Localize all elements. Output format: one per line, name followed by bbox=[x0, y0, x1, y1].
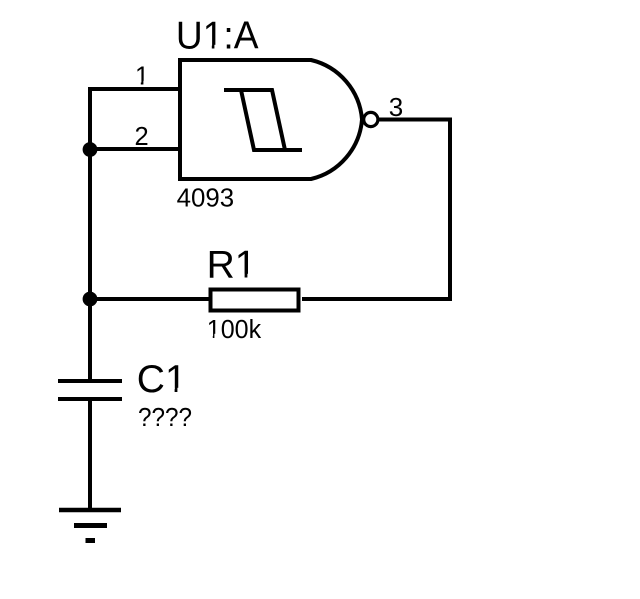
svg-text:????: ???? bbox=[138, 402, 192, 432]
wire feedback left segment bbox=[90, 297, 210, 301]
node junction dot (feedback / cap net) bbox=[83, 292, 98, 307]
foot-serif masks to render digit 1 without base bar bbox=[136, 45, 256, 394]
ground bar 3 bbox=[86, 538, 96, 543]
node junction dot (pin2 / feedback net) bbox=[83, 142, 98, 157]
schmitt hysteresis symbol inside U1:A bbox=[224, 90, 302, 150]
wire cap to ground bbox=[88, 399, 92, 509]
capacitor C1 top plate bbox=[58, 379, 122, 383]
ground bar 2 bbox=[74, 523, 107, 528]
ground bar 1 bbox=[59, 508, 121, 513]
capacitor C1 bottom plate bbox=[58, 397, 122, 401]
svg-text:4093: 4093 bbox=[177, 184, 235, 212]
wire pin3 output to feedback right side bbox=[302, 120, 450, 300]
svg-text:R1: R1 bbox=[207, 244, 257, 287]
inversion bubble on U1:A output bbox=[364, 112, 378, 126]
wire pin1 + left vertical net bbox=[90, 89, 181, 381]
svg-text:U1:A: U1:A bbox=[176, 15, 259, 58]
svg-text:3: 3 bbox=[389, 92, 403, 122]
gate U1:A 4093 NAND body bbox=[180, 60, 362, 179]
wire pin2 stub bbox=[88, 147, 181, 151]
resistor R1 body bbox=[211, 290, 299, 311]
svg-text:C1: C1 bbox=[137, 358, 187, 401]
svg-text:2: 2 bbox=[135, 123, 149, 151]
svg-text:100k: 100k bbox=[207, 316, 262, 344]
